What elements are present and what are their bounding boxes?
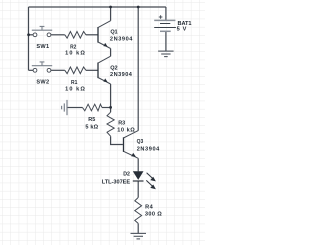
switch SW2 xyxy=(32,62,52,86)
ground (R5 side, rotated left) xyxy=(62,100,67,115)
ground (R4) xyxy=(131,233,147,239)
svg-text:Q3: Q3 xyxy=(137,139,144,145)
wire R1 to Q2 base xyxy=(86,69,98,71)
svg-text:2N3904: 2N3904 xyxy=(137,146,160,152)
wire SW1 to R2 xyxy=(51,34,65,36)
svg-text:2N3904: 2N3904 xyxy=(110,72,133,78)
wire R4 to ground xyxy=(137,223,139,233)
svg-text:LTL-307EE: LTL-307EE xyxy=(102,180,131,186)
svg-text:10 kΩ: 10 kΩ xyxy=(117,128,135,134)
svg-text:5 V: 5 V xyxy=(177,26,187,32)
svg-text:R5: R5 xyxy=(88,117,95,123)
wire Q2 emitter down to node xyxy=(110,84,112,107)
wire R2 to Q1 base xyxy=(86,34,98,36)
svg-text:R2: R2 xyxy=(70,44,76,50)
wire ground to R5 xyxy=(67,107,83,109)
node: rail/Q1 junction xyxy=(109,6,112,9)
svg-text:10 kΩ: 10 kΩ xyxy=(65,50,85,56)
switch SW1 xyxy=(32,26,52,50)
wire bus to SW2 xyxy=(29,69,34,71)
wire R3 to Q3 base xyxy=(111,136,123,144)
svg-text:10 kΩ: 10 kΩ xyxy=(65,86,85,92)
wire LED to R4 xyxy=(137,181,139,198)
wire rail to Q1 collector xyxy=(110,7,112,21)
wire Q1 emitter to Q2 collector xyxy=(110,49,112,57)
resistor R1 xyxy=(65,67,86,92)
wire battery to ground xyxy=(165,31,167,51)
svg-text:D2: D2 xyxy=(123,172,130,178)
LED D2 xyxy=(102,171,156,189)
svg-text:R3: R3 xyxy=(118,121,125,127)
ground (battery) xyxy=(158,51,174,57)
battery BAT1 xyxy=(154,15,191,32)
wire node to R3 xyxy=(110,107,112,112)
transistor Q3 xyxy=(124,131,161,159)
node: rail/Q3 junction xyxy=(137,6,140,9)
svg-text:2N3904: 2N3904 xyxy=(110,36,133,42)
wire battery drop xyxy=(165,7,167,20)
svg-text:300 Ω: 300 Ω xyxy=(145,211,162,217)
transistor Q2 xyxy=(98,56,133,84)
wire rail to Q3 collector xyxy=(137,7,139,131)
wire SW2 to R1 xyxy=(51,69,65,71)
node: R5/R3 junction xyxy=(109,106,112,109)
wire Q3 emitter to LED xyxy=(137,158,139,171)
resistor R2 xyxy=(65,32,86,57)
node: SW1 bus junction xyxy=(27,33,30,36)
svg-text:Q1: Q1 xyxy=(110,29,117,35)
svg-text:5 kΩ: 5 kΩ xyxy=(85,124,98,130)
svg-text:R1: R1 xyxy=(71,80,77,86)
wire bus to SW1 xyxy=(29,34,34,36)
svg-text:SW2: SW2 xyxy=(36,80,49,86)
wire top rail xyxy=(29,6,166,8)
svg-text:R4: R4 xyxy=(145,205,153,211)
resistor R5 xyxy=(83,104,103,130)
svg-text:SW1: SW1 xyxy=(36,44,49,50)
svg-text:Q2: Q2 xyxy=(110,65,117,71)
resistor R3 xyxy=(107,112,135,136)
resistor R4 xyxy=(135,198,162,224)
wire R5 to node xyxy=(102,107,111,109)
transistor Q1 xyxy=(98,21,133,49)
wire left bus xyxy=(28,7,30,70)
